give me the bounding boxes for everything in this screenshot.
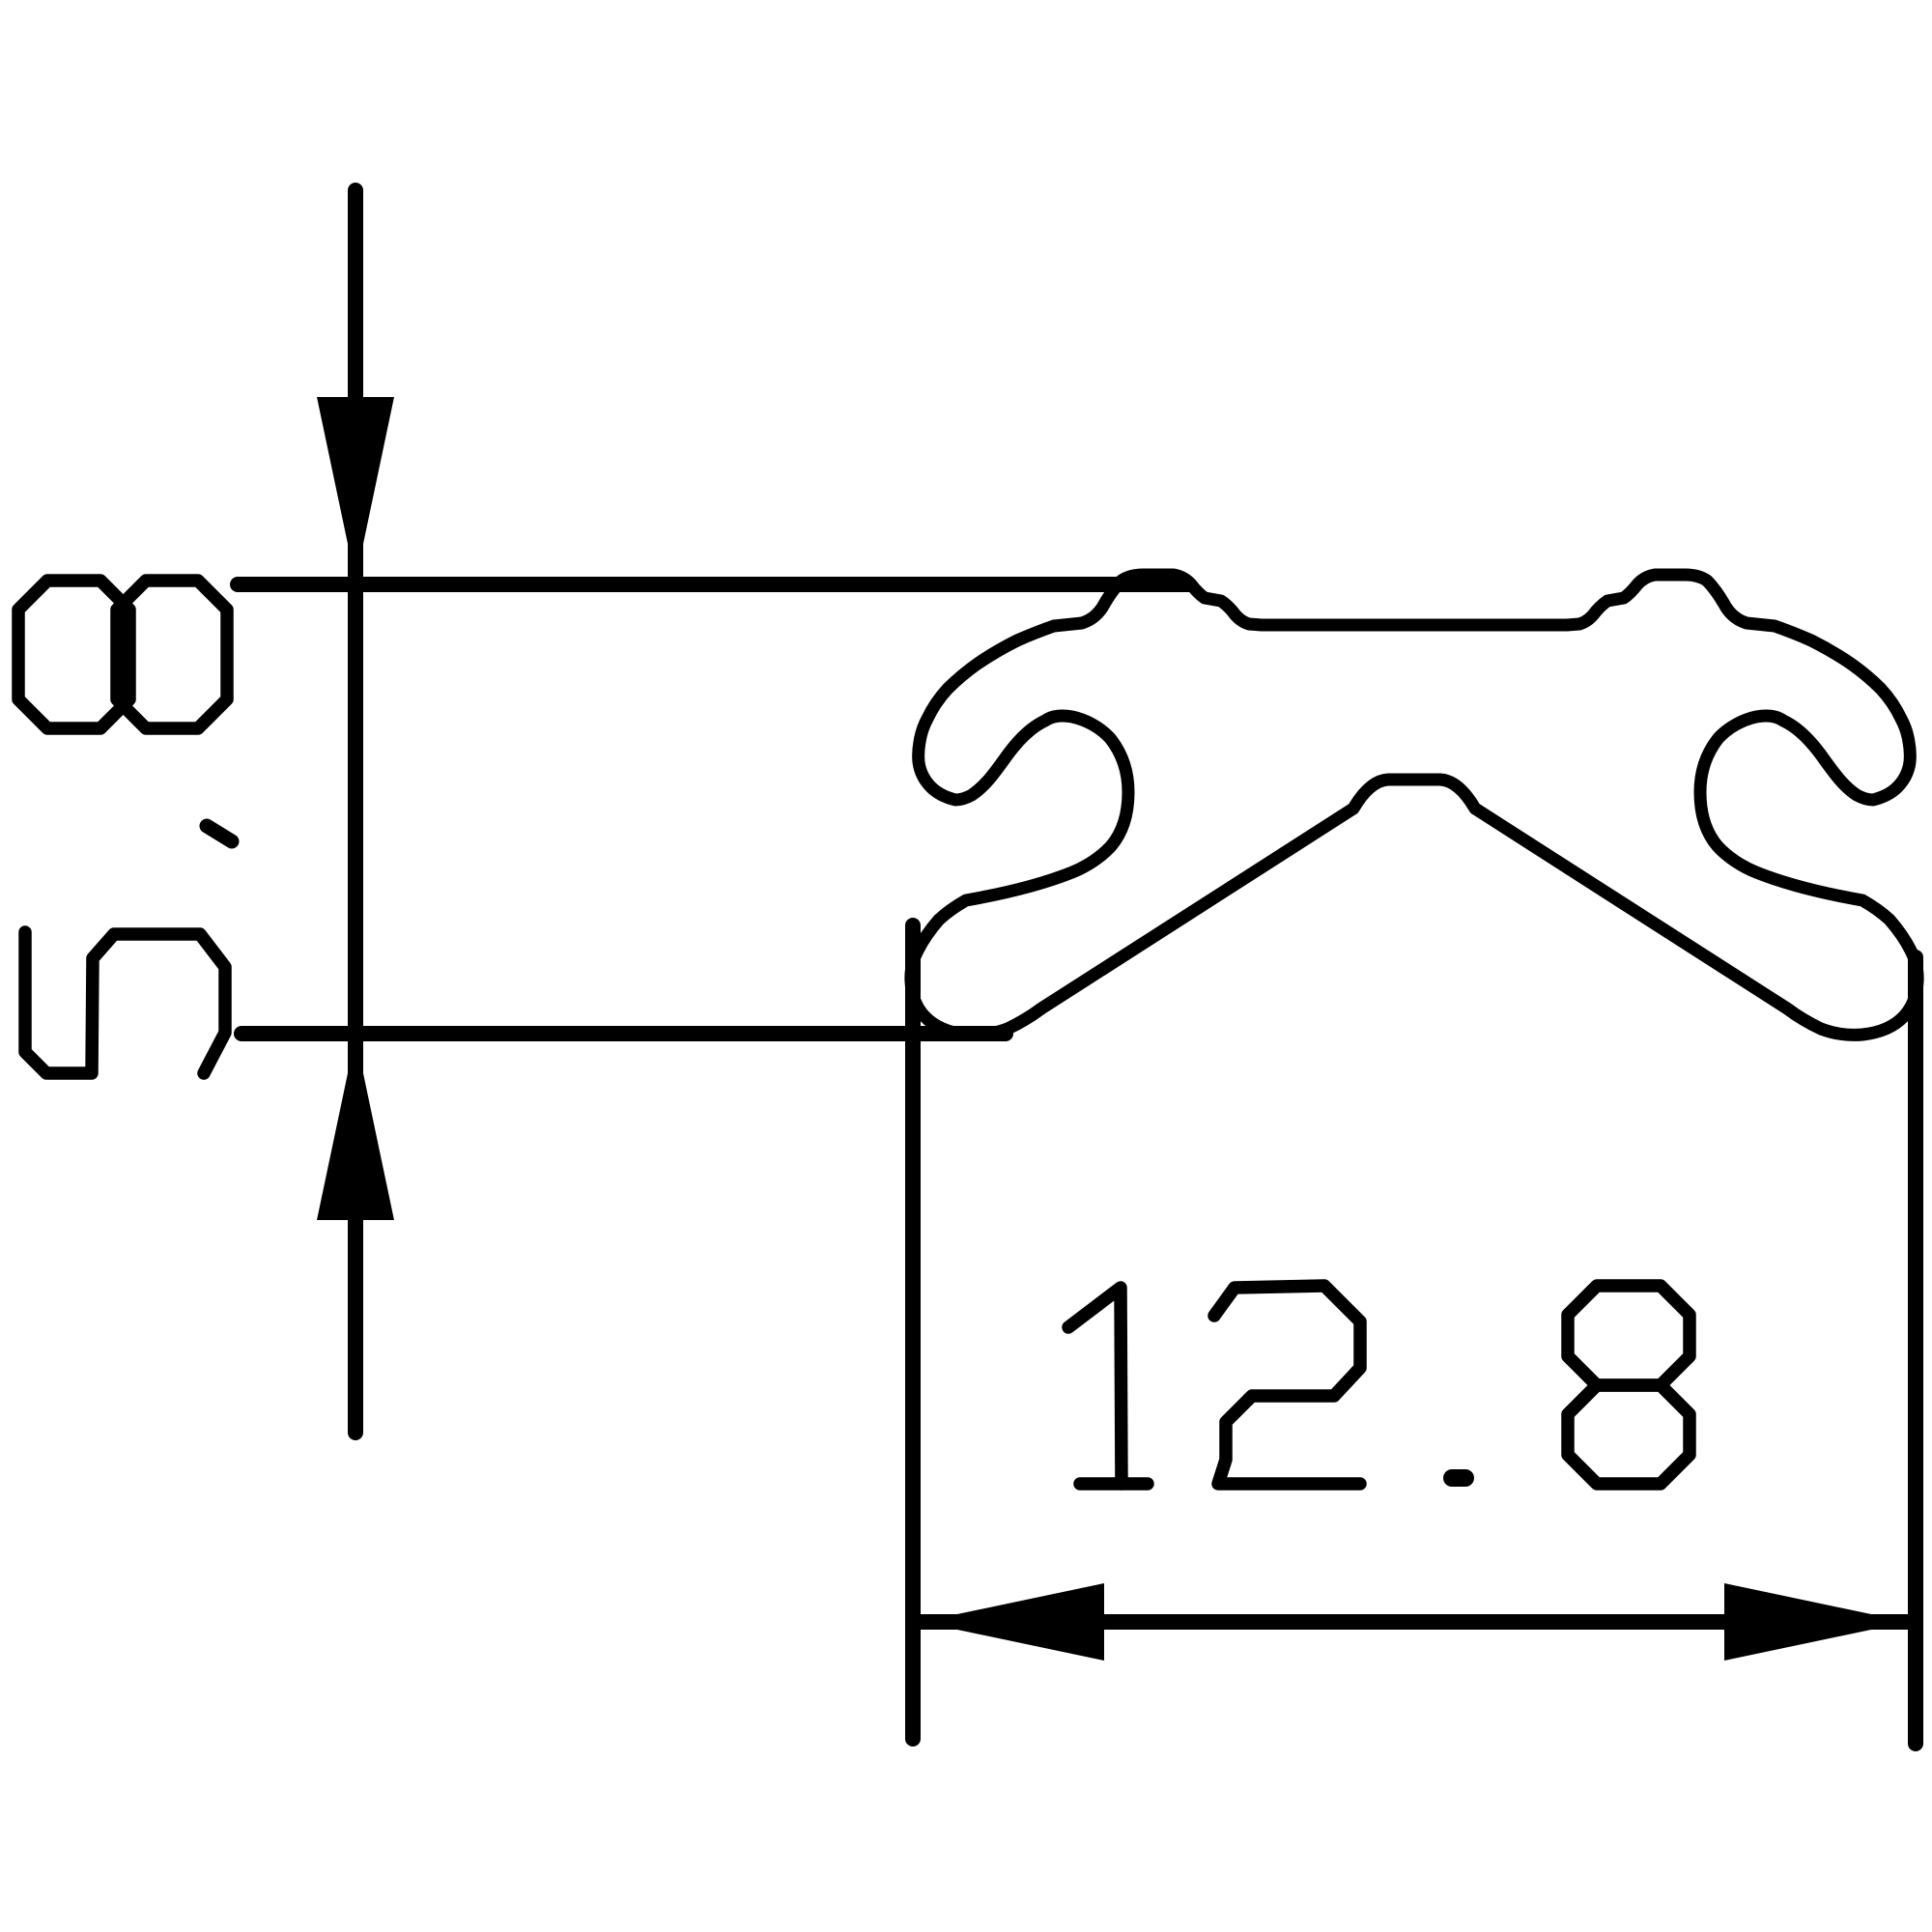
extension line top (5.8) (238, 577, 1189, 592)
extension line left (12.8) (905, 925, 921, 1739)
digit 5 of 5.8 (25, 932, 225, 1073)
text 12.8 (1068, 1286, 1690, 1484)
seal profile outline (911, 575, 1918, 1035)
digit 8 (1568, 1286, 1690, 1385)
arrow up (5.8 bottom) (317, 1037, 394, 1220)
digit 1 (1068, 1288, 1122, 1484)
digit 2 (1214, 1286, 1360, 1484)
dimension line vertical (5.8) (348, 190, 363, 1433)
decimal point (1452, 1469, 1465, 1487)
arrow down (5.8 top) (317, 397, 394, 581)
extension line right (12.8) (1908, 957, 1923, 1744)
dimension line horizontal (12.8) (921, 1614, 1908, 1630)
arrow left (12.8) (921, 1583, 1104, 1661)
decimal point of 5.8 (207, 826, 232, 841)
digit 8 of 5.8 (18, 581, 129, 728)
text 5.8 (rotated, drawn in view space) (18, 581, 232, 1073)
arrow right (12.8) (1724, 1583, 1908, 1661)
extension line bottom (5.8) (241, 1026, 1006, 1041)
